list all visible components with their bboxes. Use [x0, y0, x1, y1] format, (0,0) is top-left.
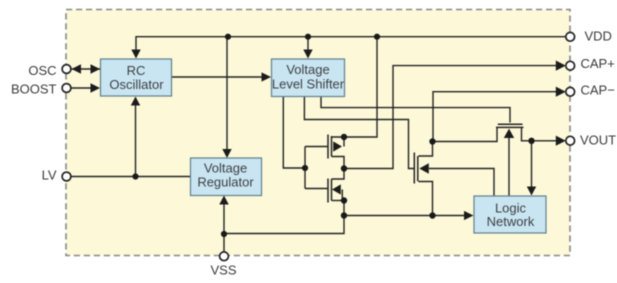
svg-text:Regulator: Regulator [197, 174, 254, 189]
svg-text:Level Shifter: Level Shifter [272, 77, 345, 92]
svg-text:Voltage: Voltage [286, 62, 329, 77]
svg-text:VSS: VSS [210, 263, 236, 278]
svg-text:RC: RC [127, 63, 146, 78]
svg-text:Oscillator: Oscillator [109, 77, 164, 92]
svg-text:CAP+: CAP+ [581, 56, 615, 71]
svg-text:VDD: VDD [585, 29, 612, 44]
svg-text:Network: Network [487, 214, 535, 229]
svg-text:BOOST: BOOST [11, 82, 57, 97]
svg-text:VOUT: VOUT [580, 133, 616, 148]
svg-text:Voltage: Voltage [204, 160, 247, 175]
svg-text:LV: LV [42, 168, 57, 183]
svg-text:OSC: OSC [28, 63, 56, 78]
svg-text:CAP−: CAP− [581, 83, 615, 98]
